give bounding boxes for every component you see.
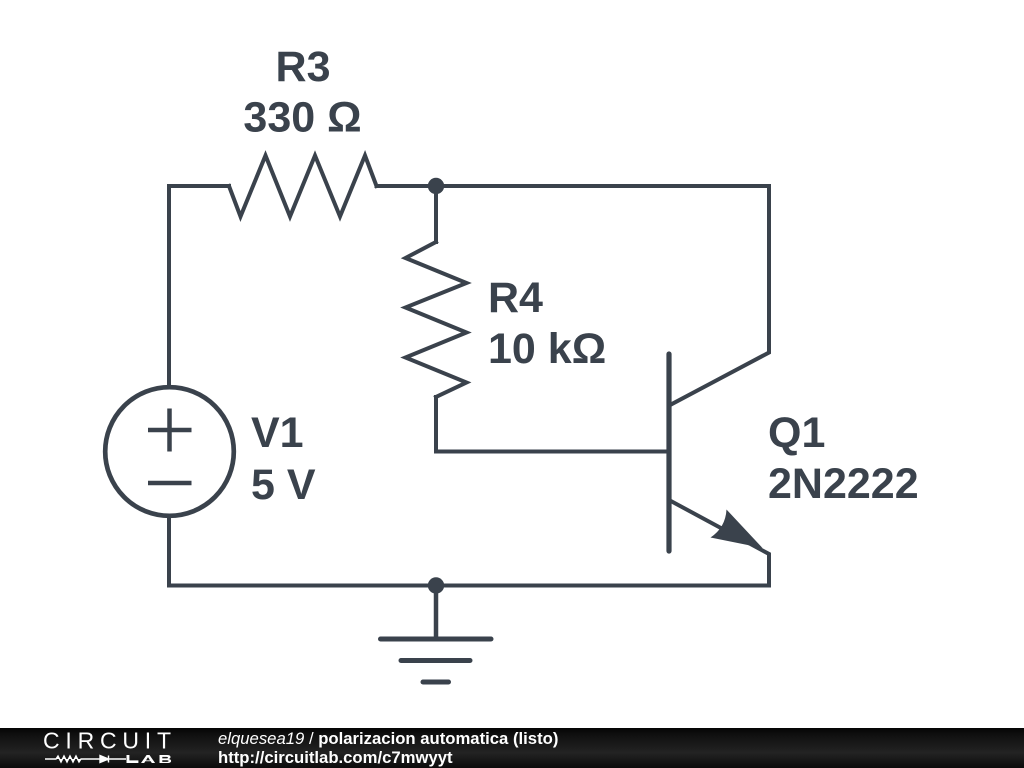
- svg-text:330 Ω: 330 Ω: [243, 94, 361, 142]
- ground: [381, 589, 492, 682]
- wire: base wire to Q1: [436, 450, 667, 454]
- wire: R4 bottom to base wire corner: [434, 397, 438, 452]
- wire: top-left vertical + top run to R3: [169, 186, 229, 385]
- svg-text:10 kΩ: 10 kΩ: [488, 325, 606, 373]
- node ground junction dot (bottom): [428, 577, 444, 593]
- svg-text:5 V: 5 V: [251, 461, 316, 509]
- wire: left vertical below V1: [167, 518, 171, 586]
- svg-text:R4: R4: [488, 274, 543, 322]
- footer url text: [218, 750, 453, 767]
- wire: R3 to node A to top-right corner: [377, 184, 770, 188]
- node A junction dot (top): [428, 178, 444, 194]
- svg-text:V1: V1: [251, 409, 304, 457]
- wire: node A stem down to R4: [434, 186, 438, 242]
- svg-text:Q1: Q1: [768, 409, 825, 457]
- voltage source V1: [105, 387, 234, 516]
- svg-text:R3: R3: [276, 43, 331, 91]
- footer title text: [218, 731, 558, 748]
- resistor R4: [406, 242, 467, 397]
- resistor R3: [229, 156, 377, 217]
- transistor Q1: [669, 354, 769, 586]
- svg-text:CIRCUIT: CIRCUIT: [43, 728, 173, 754]
- wire + Q1 collector lead: right vertical down, diagonal to bar: [671, 186, 769, 405]
- CircuitLab logo: [0, 728, 200, 768]
- wire: bottom run: [169, 584, 769, 588]
- svg-text:2N2222: 2N2222: [768, 460, 919, 508]
